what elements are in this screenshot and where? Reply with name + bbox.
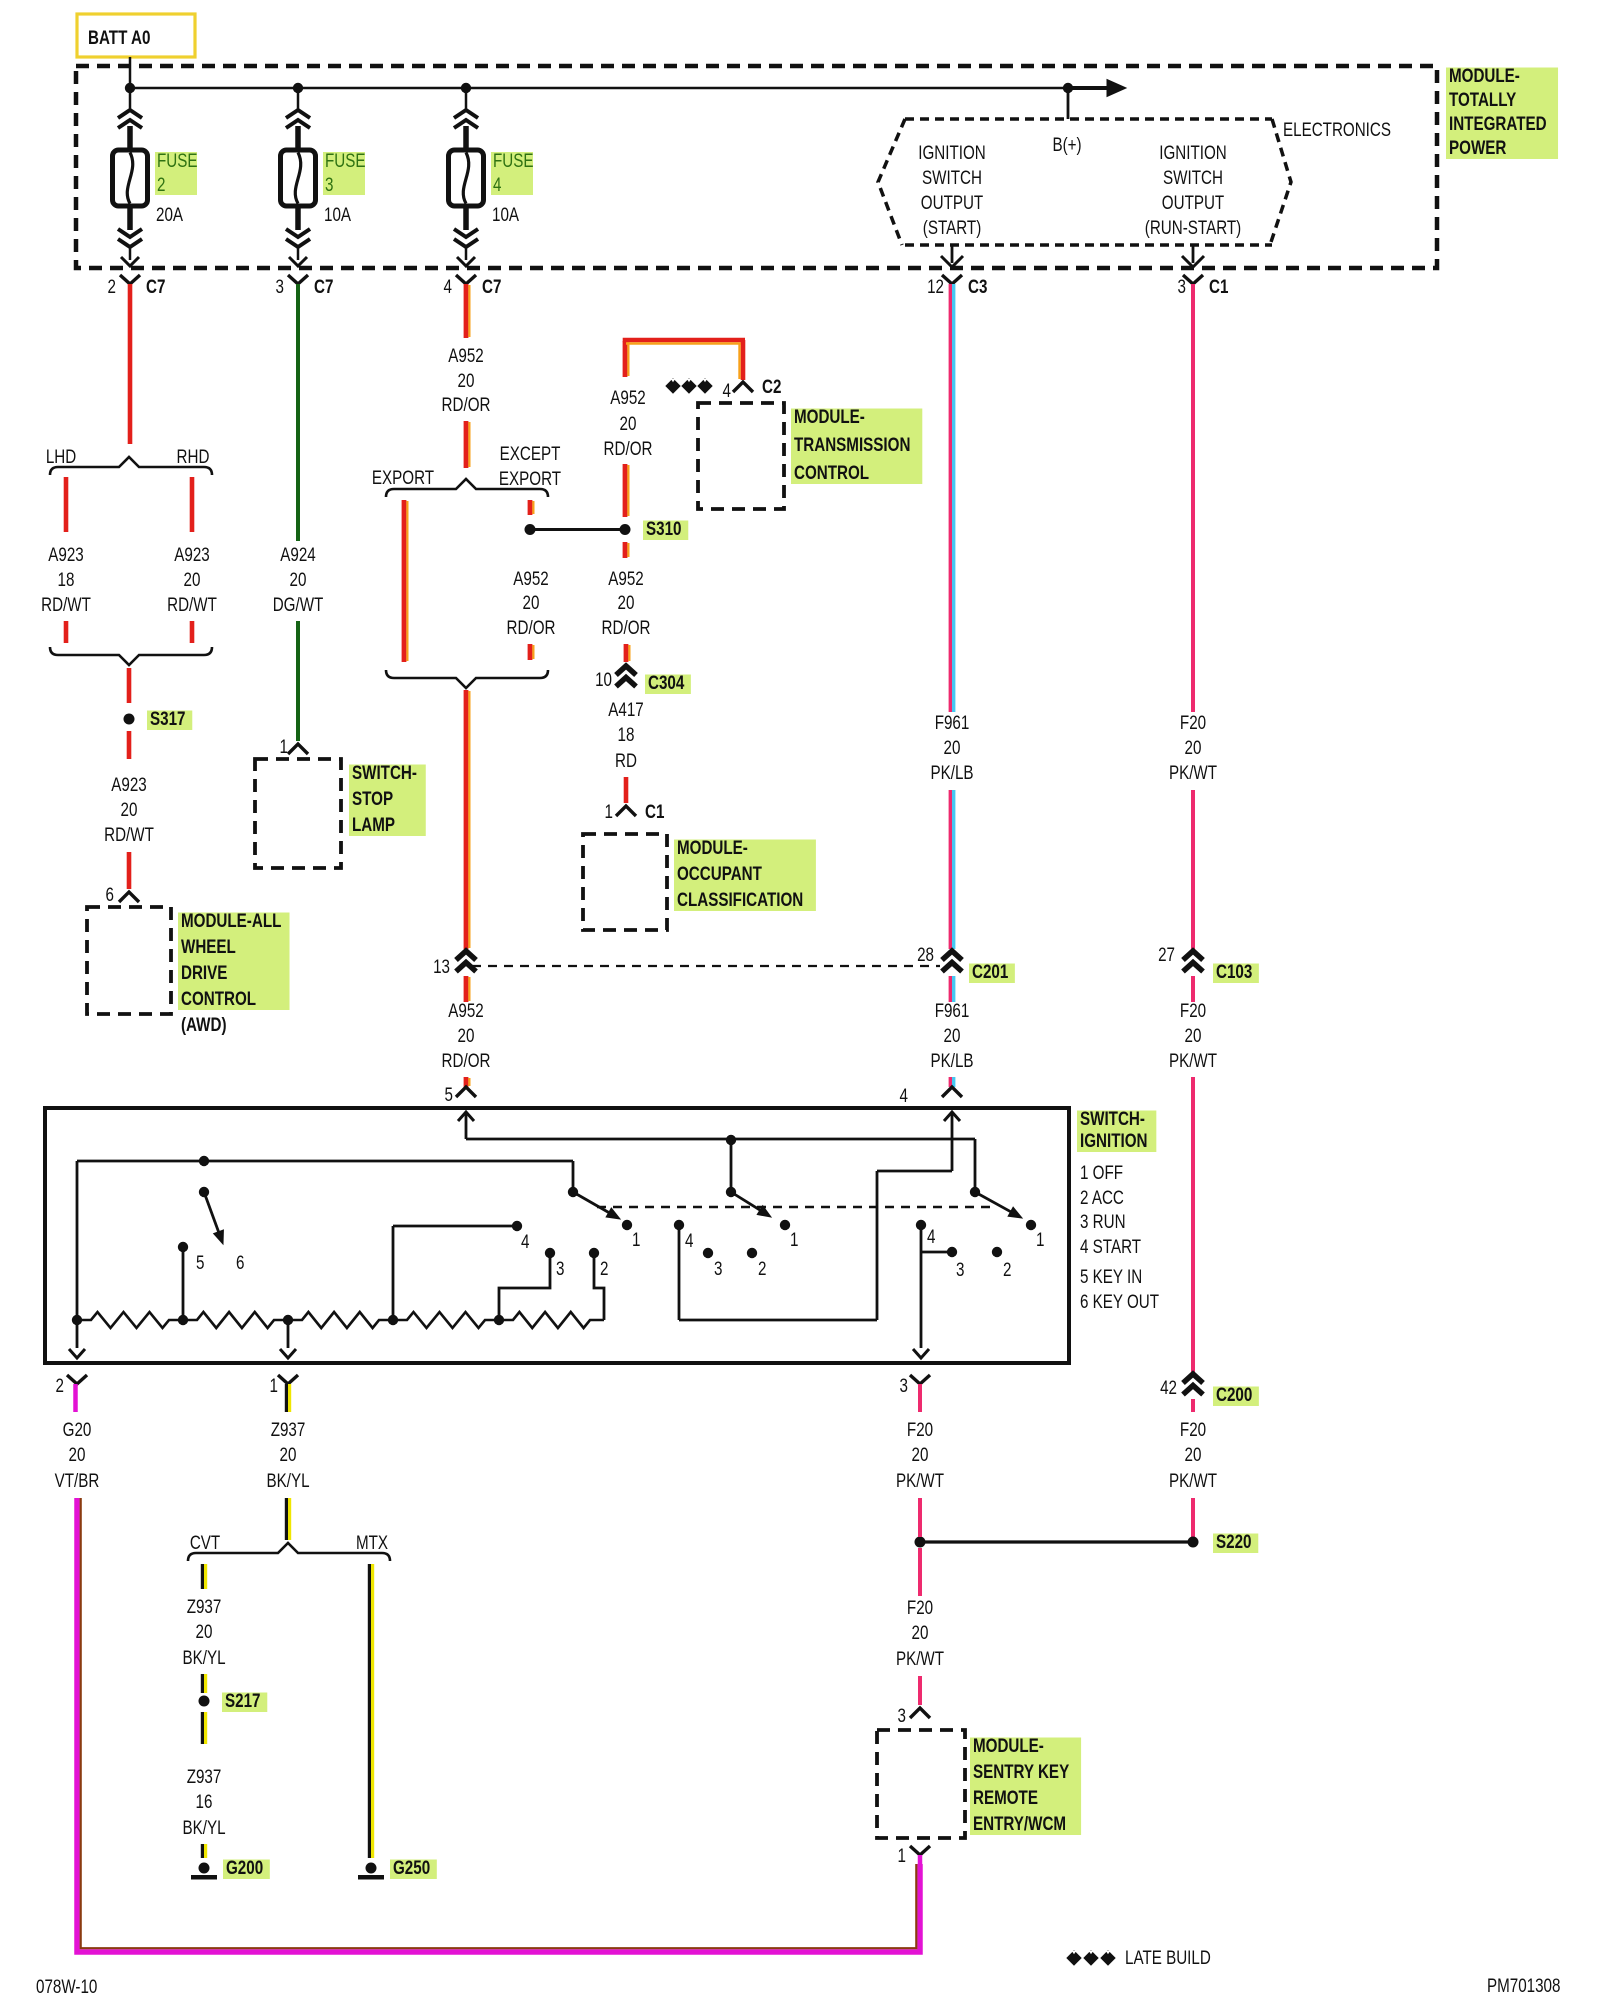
wire Z937 CVT dash 2 bbox=[201, 1674, 204, 1693]
svg-text:SWITCH-: SWITCH- bbox=[352, 761, 417, 783]
fuse F3 lower lead bbox=[295, 206, 301, 230]
module TIPM dashed outline bbox=[76, 66, 1437, 268]
svg-text:1: 1 bbox=[1036, 1228, 1044, 1250]
svg-text:3: 3 bbox=[714, 1257, 722, 1279]
svg-text:20: 20 bbox=[620, 412, 637, 434]
svg-text:1: 1 bbox=[280, 735, 288, 757]
svg-text:OUTPUT: OUTPUT bbox=[1162, 191, 1225, 213]
wire F961 below C201 bbox=[949, 976, 952, 1002]
wire F961 pink/lightblue from C3 bbox=[949, 284, 952, 712]
svg-text:C103: C103 bbox=[1216, 960, 1252, 982]
brace LHD/RHD merge bbox=[50, 647, 212, 665]
svg-text:PK/LB: PK/LB bbox=[930, 1049, 973, 1071]
wire ignition switch output start to C3 bbox=[951, 245, 954, 263]
svg-text:C1: C1 bbox=[645, 800, 665, 822]
svg-text:1: 1 bbox=[270, 1374, 278, 1396]
wire G20 stub bbox=[73, 1384, 78, 1412]
svg-text:BATT A0: BATT A0 bbox=[88, 26, 150, 48]
wire F20 to splice S220 bbox=[918, 1498, 922, 1537]
svg-text:RD/WT: RD/WT bbox=[167, 593, 217, 615]
label module all wheel drive control bbox=[178, 913, 290, 1011]
svg-text:PK/WT: PK/WT bbox=[896, 1469, 945, 1491]
fuse F4 leads and chevrons bbox=[465, 88, 468, 112]
svg-text:WHEEL: WHEEL bbox=[181, 935, 236, 957]
svg-text:20: 20 bbox=[1185, 1443, 1202, 1465]
wire A923 LHD dash bbox=[64, 621, 69, 643]
svg-text:IGNITION: IGNITION bbox=[918, 141, 985, 163]
node bus junction at fuse 2 bbox=[125, 83, 135, 93]
svg-text:EXPORT: EXPORT bbox=[372, 466, 435, 488]
wire Z937 CVT dash 3 bbox=[201, 1712, 204, 1744]
svg-text:6 KEY OUT: 6 KEY OUT bbox=[1080, 1290, 1159, 1312]
svg-text:Z937: Z937 bbox=[271, 1418, 306, 1440]
svg-text:10: 10 bbox=[595, 668, 612, 690]
svg-text:SWITCH-: SWITCH- bbox=[1080, 1107, 1145, 1129]
svg-text:F20: F20 bbox=[1180, 999, 1206, 1021]
fuse F2 label bbox=[155, 152, 197, 195]
svg-text:F20: F20 bbox=[907, 1418, 933, 1440]
svg-text:PK/WT: PK/WT bbox=[896, 1647, 945, 1669]
svg-text:IGNITION: IGNITION bbox=[1080, 1129, 1147, 1151]
svg-text:20: 20 bbox=[280, 1443, 297, 1465]
svg-text:F20: F20 bbox=[907, 1596, 933, 1618]
svg-text:20: 20 bbox=[912, 1621, 929, 1643]
label module sentry key remote entry/wcm bbox=[970, 1738, 1081, 1836]
svg-text:3 RUN: 3 RUN bbox=[1080, 1210, 1126, 1232]
svg-text:C304: C304 bbox=[648, 671, 685, 693]
svg-text:3: 3 bbox=[325, 173, 333, 195]
svg-text:20: 20 bbox=[944, 1024, 961, 1046]
brace CVT/MTX split bbox=[188, 1543, 390, 1561]
svg-text:10A: 10A bbox=[324, 203, 351, 225]
svg-text:13: 13 bbox=[433, 955, 450, 977]
connector C3 pin 12 bbox=[942, 275, 962, 284]
node contact 2 group2 bbox=[747, 1248, 757, 1258]
wire link to S310 bbox=[535, 528, 620, 531]
svg-text:20: 20 bbox=[944, 736, 961, 758]
module TIPM electronics inner dashed box bbox=[905, 117, 1272, 121]
node resistor junctions bbox=[72, 1315, 82, 1325]
connector C7 pin 3 bbox=[288, 275, 308, 284]
svg-text:A923: A923 bbox=[48, 543, 83, 565]
wire Z937 stub bbox=[285, 1384, 288, 1412]
wire gang dashed line bbox=[597, 1206, 993, 1209]
splice S217 bbox=[199, 1696, 210, 1707]
svg-text:ENTRY/WCM: ENTRY/WCM bbox=[973, 1812, 1066, 1834]
svg-text:A952: A952 bbox=[448, 999, 483, 1021]
wire F20 from ignition pin 3 bbox=[918, 1384, 922, 1412]
svg-text:G20: G20 bbox=[63, 1418, 92, 1440]
bus wire B(+) bbox=[130, 87, 1068, 90]
svg-text:RD/OR: RD/OR bbox=[442, 393, 491, 415]
splice S220 link bbox=[920, 1540, 1193, 1543]
svg-text:S220: S220 bbox=[1216, 1530, 1251, 1552]
wire G20 violet run to sentry module bbox=[77, 1498, 920, 1952]
svg-text:20: 20 bbox=[523, 591, 540, 613]
wire port4 start feed path bbox=[951, 1112, 954, 1171]
brace LHD/RHD split bbox=[50, 457, 212, 475]
svg-text:B(+): B(+) bbox=[1052, 133, 1081, 155]
node contact 5 bbox=[178, 1242, 188, 1252]
module transmission control box bbox=[698, 403, 784, 509]
svg-text:SENTRY KEY: SENTRY KEY bbox=[973, 1760, 1070, 1782]
svg-text:2: 2 bbox=[758, 1257, 766, 1279]
label late build legend bbox=[1067, 1951, 1081, 1965]
svg-text:RD/WT: RD/WT bbox=[41, 593, 91, 615]
svg-text:1: 1 bbox=[790, 1228, 798, 1250]
svg-text:CONTROL: CONTROL bbox=[794, 461, 869, 483]
wire A923 LHD branch bbox=[64, 477, 69, 532]
svg-text:S317: S317 bbox=[150, 707, 185, 729]
module sentry key remote entry box bbox=[877, 1730, 965, 1838]
wire Z937 to CVT/MTX brace bbox=[285, 1498, 288, 1540]
fuse F3 leads and chevrons bbox=[297, 88, 300, 112]
svg-text:2: 2 bbox=[1003, 1258, 1011, 1280]
wire A952 except-export lower dash bbox=[528, 644, 533, 660]
svg-text:RD/OR: RD/OR bbox=[604, 437, 653, 459]
brace EXPORT split bbox=[386, 479, 548, 497]
svg-text:OCCUPANT: OCCUPANT bbox=[677, 862, 762, 884]
svg-text:3: 3 bbox=[1178, 275, 1186, 297]
svg-text:C7: C7 bbox=[314, 275, 333, 297]
svg-text:6: 6 bbox=[106, 883, 114, 905]
wire Z937 CVT dash 1 bbox=[201, 1564, 204, 1589]
wire A923 to AWD module bbox=[127, 852, 132, 889]
node bus junction at fuse 4 bbox=[461, 83, 471, 93]
node bus junction B(+) bbox=[1063, 83, 1073, 93]
svg-text:POWER: POWER bbox=[1449, 136, 1507, 158]
svg-text:G250: G250 bbox=[393, 1856, 430, 1878]
label switch ignition bbox=[1077, 1111, 1156, 1153]
wire Z937 CVT dash 4 bbox=[201, 1844, 204, 1858]
node contact 3 group1 bbox=[545, 1248, 555, 1258]
ground G250 bbox=[366, 1863, 377, 1874]
wire ignition switch output run-start to C1 bbox=[1192, 245, 1195, 263]
svg-text:BK/YL: BK/YL bbox=[182, 1646, 225, 1668]
svg-text:12: 12 bbox=[927, 275, 944, 297]
svg-text:RD/OR: RD/OR bbox=[602, 616, 651, 638]
fuse F3 body bbox=[281, 150, 316, 206]
svg-text:S310: S310 bbox=[646, 517, 681, 539]
module occupant classification box bbox=[583, 834, 667, 930]
svg-text:PM701308: PM701308 bbox=[1487, 1974, 1560, 1996]
wire A952 long run to ignition switch bbox=[464, 690, 469, 949]
wire A952 below S310 dash bbox=[623, 542, 628, 558]
splice S317 bbox=[124, 714, 135, 725]
switch ignition box bbox=[45, 1108, 1069, 1363]
connector C1 pin 3 bbox=[1183, 275, 1203, 284]
wire F20 below S220 bbox=[918, 1548, 922, 1596]
svg-text:ELECTRONICS: ELECTRONICS bbox=[1283, 118, 1391, 140]
label module occupant classification bbox=[674, 840, 816, 912]
svg-text:(RUN-START): (RUN-START) bbox=[1145, 216, 1241, 238]
svg-text:27: 27 bbox=[1158, 943, 1175, 965]
node contact 4 group3 bbox=[916, 1220, 926, 1230]
wire F20 below C103 bbox=[1191, 976, 1195, 1002]
svg-text:A923: A923 bbox=[111, 773, 146, 795]
svg-text:20: 20 bbox=[458, 369, 475, 391]
svg-text:16: 16 bbox=[196, 1790, 213, 1812]
svg-text:20: 20 bbox=[196, 1620, 213, 1642]
wire port2 drop bbox=[76, 1161, 79, 1348]
wire dashed bulkhead line bbox=[472, 965, 940, 967]
label module totally integrated power bbox=[1446, 68, 1558, 160]
svg-text:MODULE-: MODULE- bbox=[1449, 64, 1520, 86]
svg-text:3: 3 bbox=[556, 1257, 564, 1279]
svg-text:BK/YL: BK/YL bbox=[266, 1469, 309, 1491]
svg-text:SWITCH: SWITCH bbox=[922, 166, 982, 188]
svg-text:BK/YL: BK/YL bbox=[182, 1816, 225, 1838]
connector C7 pin 4 bbox=[456, 275, 476, 284]
svg-text:VT/BR: VT/BR bbox=[55, 1469, 100, 1491]
svg-text:3: 3 bbox=[276, 275, 284, 297]
svg-text:3: 3 bbox=[898, 1704, 906, 1726]
svg-text:FUSE: FUSE bbox=[493, 149, 534, 171]
svg-text:CONTROL: CONTROL bbox=[181, 987, 256, 1009]
svg-text:MODULE-: MODULE- bbox=[973, 1734, 1044, 1756]
svg-text:20A: 20A bbox=[156, 203, 183, 225]
svg-text:5: 5 bbox=[445, 1083, 453, 1105]
svg-text:2: 2 bbox=[56, 1374, 64, 1396]
svg-text:PK/WT: PK/WT bbox=[1169, 1469, 1218, 1491]
label late build diamonds at C2 bbox=[666, 379, 680, 393]
svg-text:20: 20 bbox=[618, 591, 635, 613]
wire F961 to C201 bbox=[949, 790, 952, 949]
node feed rail junction bbox=[726, 1135, 736, 1145]
fuse F4 lower lead bbox=[463, 206, 469, 230]
node contact 3 group3 bbox=[947, 1247, 957, 1257]
svg-text:LHD: LHD bbox=[46, 445, 76, 467]
wire A952 stub at port 5 bbox=[464, 1077, 469, 1087]
svg-text:4: 4 bbox=[723, 379, 732, 401]
wire A923 RHD branch bbox=[190, 477, 195, 532]
svg-text:REMOTE: REMOTE bbox=[973, 1786, 1038, 1808]
svg-text:EXCEPT: EXCEPT bbox=[500, 442, 561, 464]
svg-text:INTEGRATED: INTEGRATED bbox=[1449, 112, 1547, 134]
svg-text:PK/WT: PK/WT bbox=[1169, 1049, 1218, 1071]
wire A952 red-orange from C7-4 bbox=[464, 284, 469, 338]
svg-text:C3: C3 bbox=[968, 275, 987, 297]
svg-text:MODULE-: MODULE- bbox=[677, 836, 748, 858]
switch run lever bbox=[730, 1140, 733, 1192]
fuse F2 body bbox=[113, 150, 148, 206]
wire A952 loop to C2 bbox=[623, 341, 628, 377]
wire B(+) riser bbox=[1067, 88, 1070, 119]
wire A923 below S317 bbox=[127, 731, 132, 759]
svg-text:F20: F20 bbox=[1180, 711, 1206, 733]
svg-text:A952: A952 bbox=[448, 344, 483, 366]
svg-text:4: 4 bbox=[521, 1230, 530, 1252]
wire F20 to C103 bbox=[1191, 790, 1195, 949]
svg-text:(START): (START) bbox=[923, 216, 981, 238]
svg-text:18: 18 bbox=[618, 723, 635, 745]
module all wheel drive control box bbox=[87, 907, 171, 1014]
connector C7 pin 2 bbox=[120, 275, 140, 284]
svg-text:20: 20 bbox=[69, 1443, 86, 1465]
svg-text:4: 4 bbox=[927, 1225, 936, 1247]
svg-text:20: 20 bbox=[184, 568, 201, 590]
svg-text:2: 2 bbox=[600, 1257, 608, 1279]
svg-text:DG/WT: DG/WT bbox=[273, 593, 324, 615]
svg-text:FUSE: FUSE bbox=[157, 149, 198, 171]
svg-text:42: 42 bbox=[1160, 1376, 1177, 1398]
svg-text:4 START: 4 START bbox=[1080, 1235, 1141, 1257]
wire A952 EXCEPT EXPORT dash bbox=[528, 500, 533, 515]
svg-text:SWITCH: SWITCH bbox=[1163, 166, 1223, 188]
svg-text:10A: 10A bbox=[492, 203, 519, 225]
svg-text:28: 28 bbox=[917, 943, 934, 965]
wire A924 to stop lamp switch bbox=[296, 621, 300, 741]
wire port5 feed rail bbox=[465, 1112, 468, 1139]
svg-text:FUSE: FUSE bbox=[325, 149, 366, 171]
fuse F4 body bbox=[449, 150, 484, 206]
svg-text:(AWD): (AWD) bbox=[181, 1013, 227, 1035]
switch start lever bbox=[974, 1139, 977, 1192]
svg-text:IGNITION: IGNITION bbox=[1159, 141, 1226, 163]
svg-text:RD/WT: RD/WT bbox=[104, 823, 154, 845]
svg-text:5: 5 bbox=[196, 1251, 204, 1273]
svg-text:TRANSMISSION: TRANSMISSION bbox=[794, 433, 910, 455]
node except-export at S310 link bbox=[525, 524, 536, 535]
svg-text:5 KEY IN: 5 KEY IN bbox=[1080, 1265, 1142, 1287]
svg-text:18: 18 bbox=[58, 568, 75, 590]
svg-text:A417: A417 bbox=[608, 698, 643, 720]
svg-text:20: 20 bbox=[1185, 736, 1202, 758]
svg-text:4: 4 bbox=[900, 1084, 909, 1106]
svg-text:A952: A952 bbox=[608, 567, 643, 589]
svg-text:G200: G200 bbox=[226, 1856, 263, 1878]
svg-text:A952: A952 bbox=[610, 386, 645, 408]
wire A952 above S310 bbox=[623, 464, 628, 517]
wire from BATT A0 to bus bbox=[129, 57, 132, 88]
svg-text:PK/WT: PK/WT bbox=[1169, 761, 1218, 783]
fuse F4 label bbox=[491, 152, 533, 195]
node contact 4 group2 bbox=[674, 1220, 684, 1230]
svg-text:1: 1 bbox=[632, 1228, 640, 1250]
svg-text:MODULE-: MODULE- bbox=[794, 405, 865, 427]
svg-text:20: 20 bbox=[912, 1443, 929, 1465]
node contact 3 group2 bbox=[703, 1248, 713, 1258]
wire A952 segment bbox=[464, 421, 469, 468]
svg-text:3: 3 bbox=[900, 1374, 908, 1396]
svg-text:6: 6 bbox=[236, 1251, 244, 1273]
svg-text:20: 20 bbox=[1185, 1024, 1202, 1046]
battery feed label box BATT A0 bbox=[77, 14, 195, 57]
svg-text:1 OFF: 1 OFF bbox=[1080, 1161, 1123, 1183]
wire F20 below C200 bbox=[1191, 1399, 1195, 1412]
wire A952 above C304 bbox=[624, 644, 629, 662]
fuse F2 lower lead bbox=[127, 206, 133, 230]
svg-text:C2: C2 bbox=[762, 375, 781, 397]
svg-text:F961: F961 bbox=[935, 999, 970, 1021]
node contact 4 group1 bbox=[512, 1221, 522, 1231]
splice S310 bbox=[620, 524, 631, 535]
svg-text:Z937: Z937 bbox=[187, 1765, 222, 1787]
fuse F3 label bbox=[323, 152, 365, 195]
svg-text:C7: C7 bbox=[146, 275, 165, 297]
svg-text:RHD: RHD bbox=[177, 445, 210, 467]
wire A924 dark green from C7-3 bbox=[296, 284, 300, 541]
svg-text:PK/LB: PK/LB bbox=[930, 761, 973, 783]
svg-text:EXPORT: EXPORT bbox=[499, 467, 562, 489]
svg-text:C7: C7 bbox=[482, 275, 501, 297]
wire F961 stub at port 4 bbox=[949, 1077, 952, 1087]
svg-text:STOP: STOP bbox=[352, 787, 393, 809]
label module transmission control bbox=[791, 409, 922, 485]
svg-text:078W-10: 078W-10 bbox=[36, 1975, 97, 1997]
svg-text:4: 4 bbox=[685, 1229, 694, 1251]
svg-text:CVT: CVT bbox=[190, 1531, 221, 1553]
node contact 2 group3 bbox=[992, 1247, 1002, 1257]
svg-text:2: 2 bbox=[157, 173, 165, 195]
switch key-in lever bbox=[199, 1156, 209, 1166]
svg-text:2 ACC: 2 ACC bbox=[1080, 1186, 1124, 1208]
svg-text:F961: F961 bbox=[935, 711, 970, 733]
node contact 2 group1 bbox=[589, 1248, 599, 1258]
svg-text:4: 4 bbox=[493, 173, 502, 195]
svg-text:CLASSIFICATION: CLASSIFICATION bbox=[677, 888, 803, 910]
svg-text:RD/OR: RD/OR bbox=[507, 616, 556, 638]
wire F20 pink from C1 bbox=[1191, 284, 1195, 712]
svg-text:20: 20 bbox=[121, 798, 138, 820]
svg-text:A952: A952 bbox=[513, 567, 548, 589]
wire A417 red bbox=[624, 777, 629, 803]
svg-text:MODULE-ALL: MODULE-ALL bbox=[181, 909, 281, 931]
svg-text:3: 3 bbox=[956, 1258, 964, 1280]
svg-text:S217: S217 bbox=[225, 1689, 260, 1711]
wire F20 to sentry module bbox=[918, 1676, 922, 1705]
switch accessory lever bbox=[572, 1161, 575, 1192]
svg-text:OUTPUT: OUTPUT bbox=[921, 191, 984, 213]
svg-text:Z937: Z937 bbox=[187, 1595, 222, 1617]
svg-text:LAMP: LAMP bbox=[352, 813, 395, 835]
svg-text:1: 1 bbox=[898, 1844, 906, 1866]
svg-text:A923: A923 bbox=[174, 543, 209, 565]
fuse F2 leads and chevrons bbox=[129, 88, 132, 112]
wire A952 EXPORT branch bbox=[402, 500, 407, 662]
wire A952 below C201 bbox=[464, 976, 469, 1002]
svg-text:C1: C1 bbox=[1209, 275, 1229, 297]
node bus junction at fuse 3 bbox=[293, 83, 303, 93]
svg-text:20: 20 bbox=[458, 1024, 475, 1046]
wire Z937 MTX branch bbox=[368, 1564, 371, 1858]
svg-text:2: 2 bbox=[108, 275, 116, 297]
wire A923 merged bbox=[127, 668, 132, 703]
svg-text:A924: A924 bbox=[280, 543, 316, 565]
ground G200 bbox=[199, 1863, 210, 1874]
svg-text:20: 20 bbox=[290, 568, 307, 590]
wire F20 to S220 bbox=[1191, 1498, 1195, 1537]
svg-text:RD: RD bbox=[615, 749, 637, 771]
wire port1 drop bbox=[287, 1320, 290, 1348]
svg-text:TOTALLY: TOTALLY bbox=[1449, 88, 1517, 110]
wire A923 RHD dash bbox=[190, 621, 195, 643]
wire key-in rail bbox=[77, 1160, 573, 1163]
svg-text:1: 1 bbox=[605, 800, 613, 822]
wire A923 red from C7-2 bbox=[128, 284, 133, 444]
switch stop lamp box bbox=[255, 759, 341, 868]
wire F20 long run to C200 bbox=[1191, 1077, 1195, 1372]
svg-text:C201: C201 bbox=[972, 960, 1009, 982]
svg-text:4: 4 bbox=[444, 275, 453, 297]
label switch stop lamp bbox=[349, 765, 426, 837]
svg-text:F20: F20 bbox=[1180, 1418, 1206, 1440]
svg-text:LATE BUILD: LATE BUILD bbox=[1125, 1946, 1211, 1968]
svg-text:C200: C200 bbox=[1216, 1383, 1252, 1405]
svg-text:MTX: MTX bbox=[356, 1531, 389, 1553]
svg-text:RD/OR: RD/OR bbox=[442, 1049, 491, 1071]
brace EXPORT merge bbox=[386, 670, 548, 688]
